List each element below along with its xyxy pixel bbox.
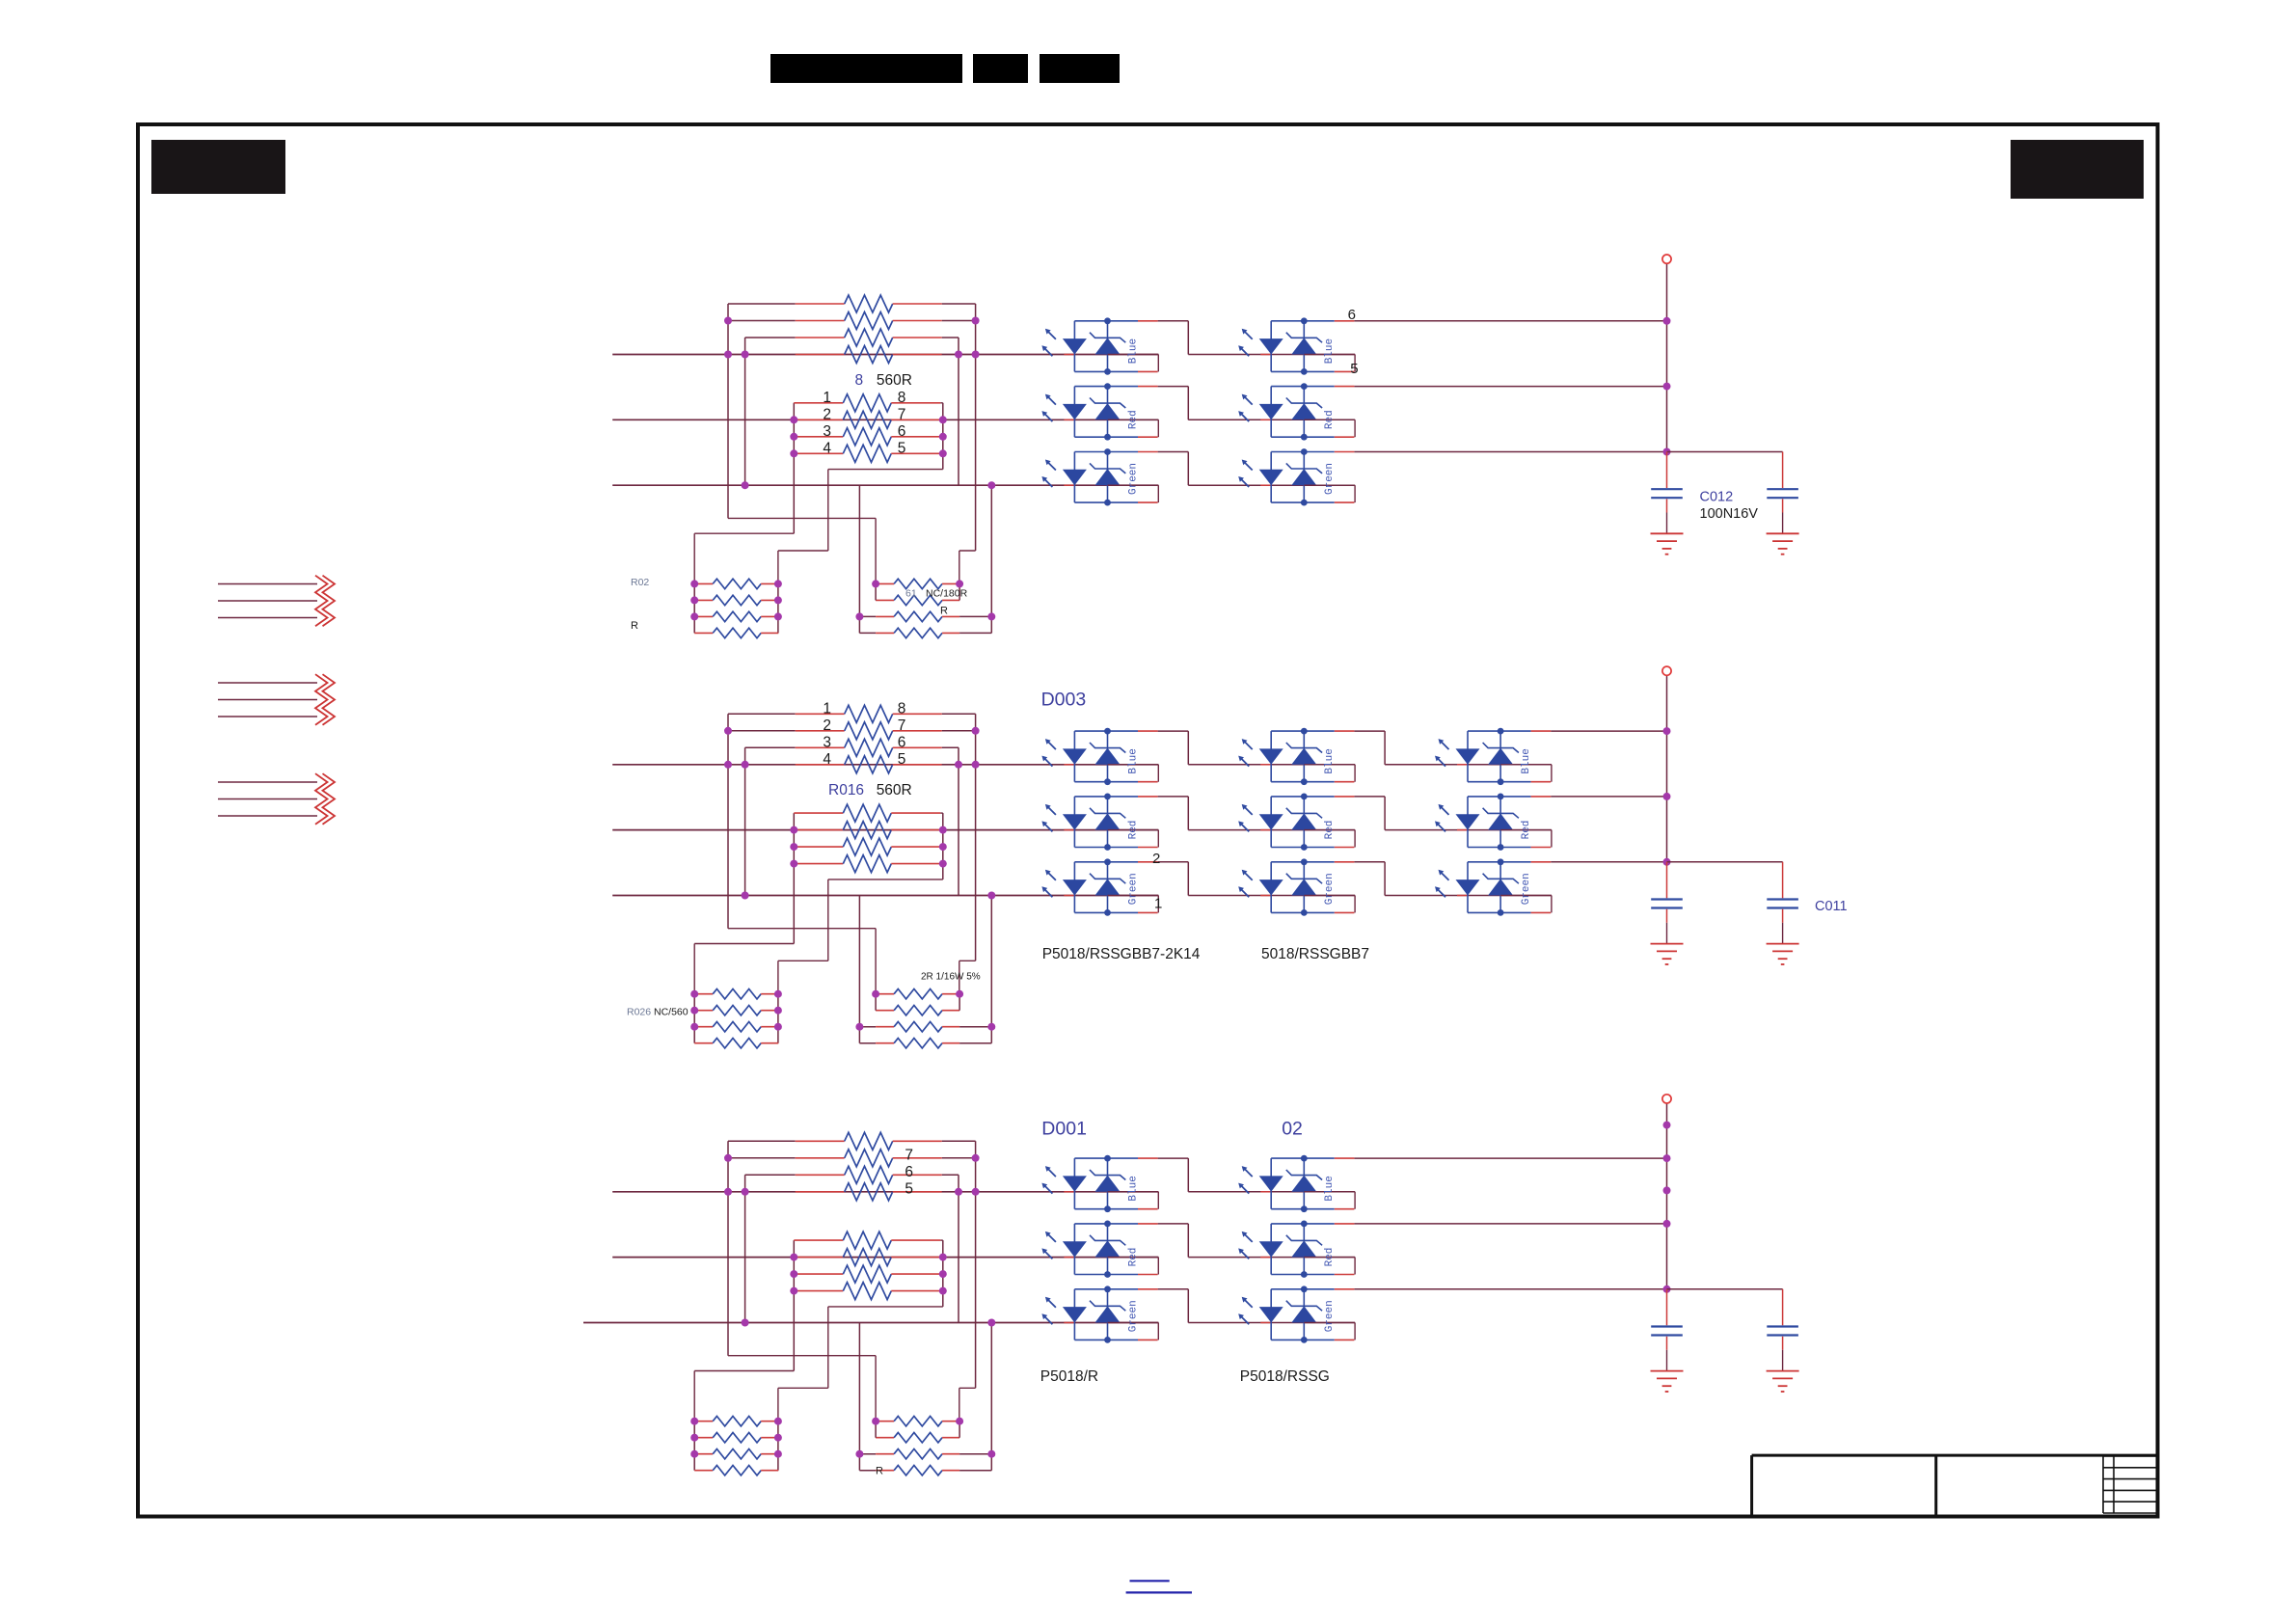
- LED+zener cell C Green #1: [1041, 1286, 1158, 1342]
- junction B v3-bluerow: [955, 761, 962, 769]
- wire A Blue row link to cell2: [1188, 354, 1355, 356]
- junction C bl-right: [774, 1450, 782, 1458]
- wire B Blue row link to cell2: [1188, 764, 1355, 766]
- wire C upper-array right rail v3: [958, 1175, 959, 1322]
- wire A br rows34 right link: [990, 616, 992, 633]
- resistor A bottom-left r4: [694, 628, 778, 637]
- wire B br r3 left ext: [859, 1026, 876, 1028]
- wire A bottom-left rail L: [693, 583, 695, 633]
- wire B left drop to R row: [858, 896, 860, 1027]
- wire C br rows12 right link: [959, 1421, 960, 1438]
- junction C v5-greenrow: [987, 1319, 995, 1327]
- junction C rail extra: [1663, 1122, 1671, 1129]
- resistor B bottom-right r1: [876, 989, 959, 999]
- svg-text:D001: D001: [1041, 1118, 1087, 1139]
- junction C v3-bluerow: [955, 1188, 962, 1196]
- power node B (open circle): [1662, 666, 1671, 675]
- wire B Blue row link to cell3: [1385, 764, 1552, 766]
- LED+zener cell C Red #1: [1041, 1221, 1158, 1278]
- svg-text:8: 8: [855, 372, 864, 389]
- resistor B bottom-left r4: [694, 1039, 778, 1048]
- wire B Red cell1 top-rail link: [1158, 796, 1189, 798]
- junction A bl-right: [774, 596, 782, 604]
- svg-text:C012: C012: [1700, 490, 1734, 505]
- wire C Blue step-down: [1187, 1158, 1189, 1192]
- svg-text:2: 2: [823, 717, 831, 734]
- resistor C bottom-left r2: [694, 1433, 778, 1443]
- wire B Blue cell1 top-rail link: [1158, 730, 1189, 732]
- wire A upper-array right rail v4: [975, 304, 977, 551]
- wire A br rows34 left link: [858, 616, 860, 633]
- svg-text:R: R: [940, 606, 948, 617]
- resistor C bottom-right r2: [876, 1433, 959, 1443]
- junction B bl-right: [774, 1007, 782, 1015]
- wire C bottom-left rail R: [777, 1421, 779, 1471]
- svg-text:6: 6: [1348, 307, 1356, 323]
- power rail C: [1666, 1103, 1668, 1289]
- svg-text:8: 8: [898, 701, 906, 717]
- wire B upper-array right rail v3: [958, 747, 959, 895]
- resistor A bottom-left r3: [694, 611, 778, 621]
- junction C mid-right: [939, 1270, 947, 1278]
- resistor B upper array r3: [796, 739, 942, 756]
- wire B Green top rail to power rail: [1551, 861, 1666, 863]
- wire A upper-array left rail v2: [744, 338, 746, 485]
- junction B br r1 right: [956, 990, 963, 998]
- resistor B upper array r4: [796, 756, 942, 773]
- LED+zener cell C Green #2: [1238, 1286, 1355, 1342]
- LED+zener cell B Red #3: [1435, 794, 1552, 851]
- resistor C upper array r2: [796, 1150, 942, 1167]
- wire A upper-array right rail v3: [958, 338, 959, 485]
- junction C mid-right: [939, 1254, 947, 1261]
- wire B Green cell2 top-rail link: [1354, 861, 1385, 863]
- junction A v2-greenrow: [742, 481, 749, 489]
- wire B upper-array left rail v1: [727, 714, 729, 928]
- junction A rail: [1663, 448, 1671, 456]
- svg-text:R016: R016: [828, 782, 864, 798]
- wire B br rows34 right link: [990, 1027, 992, 1043]
- junction B rail: [1663, 858, 1671, 866]
- resistor B bottom-left r2: [694, 1006, 778, 1015]
- wire C Red cell1 top-rail link: [1158, 1223, 1189, 1225]
- junction B mid-right: [939, 860, 947, 868]
- junction C br r3 left: [855, 1450, 863, 1458]
- resistor C bottom-left r3: [694, 1449, 778, 1459]
- junction A v1-bluerow: [724, 351, 732, 359]
- wire B Green row net: [612, 895, 1158, 897]
- resistor A middle array r2: [794, 411, 940, 428]
- wire C green rail branch: [1667, 1288, 1783, 1290]
- resistor C middle array r1: [794, 1232, 940, 1249]
- svg-text:7: 7: [898, 717, 906, 734]
- title block left edge: [1750, 1455, 1753, 1515]
- wire B upper-array left rail v2: [744, 747, 746, 895]
- wire B bottom-left rail R: [777, 994, 779, 1043]
- capacitor B #1 with ground: [1651, 862, 1684, 964]
- wire A br r4 right ext: [959, 632, 991, 634]
- svg-text:560R: 560R: [877, 782, 912, 798]
- wire B Blue cell2 top-rail link: [1354, 730, 1385, 732]
- junction A v3-bluerow: [955, 351, 962, 359]
- junction A bl-right: [774, 580, 782, 587]
- svg-text:R: R: [876, 1466, 883, 1477]
- wire B br rows12 left link: [875, 994, 877, 1011]
- LED+zener cell B Green #2: [1238, 858, 1355, 915]
- resistor A bottom-right r1: [876, 579, 959, 588]
- resistor B upper array r1: [796, 705, 942, 722]
- wire B Red step-down: [1384, 797, 1386, 830]
- title block top line: [1752, 1454, 2157, 1457]
- wire C br rows12 left link: [875, 1421, 877, 1438]
- capacitor C #1 with ground: [1651, 1289, 1684, 1392]
- resistor C bottom-right r3: [876, 1449, 959, 1459]
- junction B v4-r2: [972, 727, 980, 735]
- svg-text:100N16V: 100N16V: [1700, 506, 1759, 522]
- wire A Blue cell1 top-rail link: [1158, 320, 1189, 322]
- wire B right drop v5: [990, 896, 992, 1027]
- junction C bl-left: [690, 1434, 698, 1442]
- wire B Blue step-down: [1384, 731, 1386, 765]
- resistor A upper array r2: [796, 312, 942, 330]
- wire A bottom-left rail R: [777, 583, 779, 633]
- junction C v4-r2: [972, 1154, 980, 1162]
- resistor B upper array r2: [796, 722, 942, 740]
- wire B Green row link to cell2: [1188, 895, 1355, 897]
- svg-text:6: 6: [905, 1164, 913, 1180]
- svg-text:1: 1: [823, 390, 831, 406]
- wire A Red step-down: [1187, 387, 1189, 420]
- svg-text:5: 5: [898, 751, 906, 768]
- resistor C middle array r4: [794, 1283, 940, 1300]
- resistor B middle array r4: [794, 855, 940, 873]
- junction B bl-left: [690, 1023, 698, 1031]
- wire B green rail branch: [1667, 861, 1783, 863]
- title block divider: [1934, 1455, 1937, 1515]
- wire C upper r2 right: [942, 1157, 976, 1159]
- wire C Red step-down: [1187, 1224, 1189, 1258]
- resistor C bottom-right r1: [876, 1417, 959, 1426]
- resistor C middle array r3: [794, 1265, 940, 1283]
- resistor A bottom-right r3: [876, 611, 959, 621]
- resistor C upper array r3: [796, 1166, 942, 1183]
- resistor C bottom-right r4: [876, 1466, 959, 1475]
- junction A bl-left: [690, 612, 698, 620]
- wire C br r3 left ext: [859, 1453, 876, 1455]
- junction A bl-left: [690, 580, 698, 587]
- svg-text:7: 7: [898, 407, 906, 423]
- svg-text:3: 3: [823, 735, 831, 751]
- junction A v4-r2: [972, 317, 980, 325]
- LED+zener cell A Blue #2: [1238, 317, 1355, 374]
- resistor B middle array r3: [794, 838, 940, 855]
- junction A v1-r2: [724, 317, 732, 325]
- junction C v1-r2: [724, 1154, 732, 1162]
- wire C upper-array left rail v1: [727, 1141, 729, 1355]
- junction B v1-bluerow: [724, 761, 732, 769]
- wire A br rows12 left link: [875, 583, 877, 600]
- resistor B bottom-right r2: [876, 1006, 959, 1015]
- wire A mid-array right rail: [942, 403, 944, 470]
- svg-text:1: 1: [823, 701, 831, 717]
- junction C rail extra: [1663, 1186, 1671, 1194]
- junction B rail: [1663, 793, 1671, 800]
- wire A Red row net: [612, 419, 1158, 420]
- wire C upper-array left rail v2: [744, 1175, 746, 1322]
- wire B br r3 right ext: [959, 1026, 991, 1028]
- resistor A middle array r4: [794, 445, 940, 462]
- junction B mid-left: [790, 860, 797, 868]
- resistor C bottom-left r4: [694, 1466, 778, 1475]
- wire B upper r3 right: [942, 746, 959, 748]
- wire C Green cell1 top-rail link: [1158, 1288, 1189, 1290]
- wire A left drop to R row: [858, 485, 860, 616]
- redaction bar top 3: [1040, 54, 1120, 83]
- wire A upper r2 left: [728, 320, 796, 322]
- svg-text:2R 1/16W 5%: 2R 1/16W 5%: [921, 972, 981, 983]
- junction A rail: [1663, 317, 1671, 325]
- wire C Red row net: [612, 1257, 1158, 1259]
- redaction bar top 2: [973, 54, 1028, 83]
- junction C mid-left: [790, 1270, 797, 1278]
- junction A mid-left: [790, 416, 797, 423]
- LED+zener cell A Red #1: [1041, 383, 1158, 440]
- wire C br rows34 right link: [990, 1454, 992, 1471]
- junction C v1-bluerow: [724, 1188, 732, 1196]
- wire C Green top rail to power rail: [1354, 1288, 1666, 1290]
- resistor A upper array r1: [796, 295, 942, 312]
- connector bundle 3 (3 wires + chevrons): [218, 773, 335, 825]
- resistor B middle array r2: [794, 822, 940, 839]
- wire B Blue step-down: [1187, 731, 1189, 765]
- junction C br r3 right: [987, 1450, 995, 1458]
- power node C (open circle): [1662, 1095, 1671, 1103]
- LED+zener cell B Blue #1: [1041, 728, 1158, 785]
- wire C bottom-left rail L: [693, 1421, 695, 1471]
- wire A Green top rail to power rail: [1354, 451, 1666, 453]
- svg-text:8: 8: [898, 390, 906, 406]
- junction B rail: [1663, 727, 1671, 735]
- wire B br rows12 right link: [959, 994, 960, 1011]
- wire A Blue top rail to power rail: [1354, 320, 1666, 322]
- wire C Green row net: [583, 1322, 1158, 1324]
- junction C mid-left: [790, 1287, 797, 1295]
- resistor A middle array r1: [794, 394, 940, 412]
- junction B br r3 right: [987, 1023, 995, 1031]
- wire A br r4 left ext: [859, 632, 876, 634]
- svg-text:5: 5: [1350, 361, 1358, 377]
- wire C Green row link to cell2: [1188, 1322, 1355, 1324]
- wire C mid-array left rail: [793, 1240, 795, 1370]
- junction B br r1 left: [872, 990, 879, 998]
- LED+zener cell A Green #1: [1041, 448, 1158, 505]
- wire B Green row link to cell3: [1385, 895, 1552, 897]
- junction C bl-left: [690, 1450, 698, 1458]
- LED+zener cell A Blue #1: [1041, 317, 1158, 374]
- svg-text:R02: R02: [631, 577, 649, 588]
- junction C br r1 left: [872, 1418, 879, 1425]
- junction B br r3 left: [855, 1023, 863, 1031]
- wire B br r4 left ext: [859, 1042, 876, 1044]
- junction C rail: [1663, 1154, 1671, 1162]
- junction C rail: [1663, 1286, 1671, 1293]
- wire B Red top rail to power rail: [1551, 796, 1666, 798]
- resistor B bottom-right r4: [876, 1039, 959, 1048]
- wire A Red cell1 top-rail link: [1158, 386, 1189, 388]
- wire A Blue row net: [612, 354, 1158, 356]
- resistor A upper array r4: [796, 346, 942, 364]
- resistor B bottom-right r3: [876, 1022, 959, 1032]
- junction C rail: [1663, 1220, 1671, 1228]
- wire B Blue top rail to power rail: [1551, 730, 1666, 732]
- junction C bl-right: [774, 1434, 782, 1442]
- svg-text:2: 2: [823, 407, 831, 423]
- wire B mid-array right rail: [942, 813, 944, 880]
- svg-text:R026: R026: [627, 1007, 651, 1018]
- junction B mid-left: [790, 843, 797, 851]
- junction B v5-greenrow: [987, 892, 995, 900]
- svg-text:560R: 560R: [877, 372, 912, 389]
- junction A br r1 left: [872, 580, 879, 587]
- junction A mid-left: [790, 449, 797, 457]
- junction C bl-right: [774, 1418, 782, 1425]
- wire B bottom-left rail L: [693, 994, 695, 1043]
- wire A Red top rail to power rail: [1354, 386, 1666, 388]
- svg-text:NC/560: NC/560: [654, 1007, 689, 1018]
- wire A Green row net: [612, 484, 1158, 486]
- junction C mid-right: [939, 1287, 947, 1295]
- junction B v4-bluerow: [972, 761, 980, 769]
- junction C v4-bluerow: [972, 1188, 980, 1196]
- LED+zener cell B Blue #3: [1435, 728, 1552, 785]
- wire A upper r2 right: [942, 320, 976, 322]
- capacitor C #2 with ground: [1767, 1289, 1799, 1392]
- svg-text:2: 2: [1152, 851, 1160, 867]
- wire C upper r3 right: [942, 1174, 959, 1176]
- wire A upper r3 right: [942, 337, 959, 338]
- wire C Blue row net: [612, 1191, 1158, 1193]
- LED+zener cell C Blue #1: [1041, 1155, 1158, 1212]
- resistor B bottom-left r1: [694, 989, 778, 999]
- resistor A bottom-right r4: [876, 628, 959, 637]
- svg-text:1: 1: [1154, 896, 1162, 912]
- svg-text:4: 4: [823, 441, 831, 457]
- junction A v4-bluerow: [972, 351, 980, 359]
- wire C Blue cell1 top-rail link: [1158, 1157, 1189, 1159]
- wire A Blue step-down: [1187, 321, 1189, 355]
- wire C upper r2 left: [728, 1157, 796, 1159]
- junction A rail: [1663, 383, 1671, 391]
- wire A br rows12 right link: [959, 583, 960, 600]
- LED+zener cell A Red #2: [1238, 383, 1355, 440]
- svg-text:02: 02: [1282, 1118, 1303, 1139]
- junction A br r3 left: [855, 612, 863, 620]
- svg-text:61: 61: [905, 588, 917, 600]
- svg-text:3: 3: [823, 423, 831, 440]
- wire A Green cell1 top-rail link: [1158, 451, 1189, 453]
- svg-text:P5018/R: P5018/R: [1040, 1368, 1098, 1385]
- wire B Red cell2 top-rail link: [1354, 796, 1385, 798]
- wire C Blue row link to cell2: [1188, 1191, 1355, 1193]
- wire A green rail branch: [1667, 451, 1783, 453]
- wire B upper-array right rail v4: [975, 714, 977, 961]
- capacitor B #2 with ground: [1767, 862, 1799, 964]
- connector bundle 1 (3 wires + chevrons): [218, 576, 335, 627]
- junction A v5-greenrow: [987, 481, 995, 489]
- junction A mid-right: [939, 449, 947, 457]
- wire A upper r1 right: [942, 303, 976, 305]
- junction C bl-left: [690, 1418, 698, 1425]
- wire C br r3 right ext: [959, 1453, 991, 1455]
- wire B upper r2 right: [942, 730, 976, 732]
- junction B v2-greenrow: [742, 892, 749, 900]
- sheet border frame: [138, 124, 2158, 1517]
- junction C v2-bluerow: [742, 1188, 749, 1196]
- LED+zener cell B Red #1: [1041, 794, 1158, 851]
- wire C left drop to R row: [858, 1323, 860, 1454]
- wire B Red step-down: [1187, 797, 1189, 830]
- junction B bl-right: [774, 990, 782, 998]
- svg-text:D003: D003: [1041, 689, 1087, 710]
- resistor C middle array r2: [794, 1249, 940, 1266]
- wire A br r3 right ext: [959, 615, 991, 617]
- svg-text:R: R: [631, 620, 638, 632]
- wire A upper-array left rail v1: [727, 304, 729, 518]
- wire C Red top rail to power rail: [1354, 1223, 1666, 1225]
- capacitor A #2 with ground: [1767, 452, 1799, 555]
- wire A upper r1 left: [728, 303, 796, 305]
- resistor B middle array r1: [794, 804, 940, 822]
- LED+zener cell B Green #1: [1041, 858, 1158, 915]
- capacitor A #1 with ground: [1651, 452, 1684, 555]
- wire B br rows34 left link: [858, 1027, 860, 1043]
- resistor A upper array r3: [796, 329, 942, 346]
- junction A v2-bluerow: [742, 351, 749, 359]
- resistor A bottom-left r2: [694, 595, 778, 605]
- resistor A bottom-right r2: [876, 595, 959, 605]
- wire B Blue row net: [612, 764, 1158, 766]
- wire A right drop v5: [990, 485, 992, 616]
- LED+zener cell B Green #3: [1435, 858, 1552, 915]
- junction A bl-right: [774, 612, 782, 620]
- footer mark line 2: [1126, 1591, 1192, 1593]
- redaction box top-right: [2011, 140, 2144, 199]
- LED+zener cell B Blue #2: [1238, 728, 1355, 785]
- wire A br r3 left ext: [859, 615, 876, 617]
- wire C upper r1 left: [728, 1140, 796, 1142]
- wire C Green step-down: [1187, 1289, 1189, 1323]
- redaction box top-left: [151, 140, 285, 194]
- redaction bar top 1: [770, 54, 962, 83]
- wire B mid-array left rail: [793, 813, 795, 943]
- junction A mid-right: [939, 416, 947, 423]
- junction C br r1 right: [956, 1418, 963, 1425]
- junction A bl-left: [690, 596, 698, 604]
- svg-text:5: 5: [898, 441, 906, 457]
- footer mark line 1: [1130, 1580, 1170, 1582]
- wire C br r4 right ext: [959, 1470, 991, 1472]
- wire C upper-array right rail v4: [975, 1141, 977, 1388]
- svg-text:NC/180R: NC/180R: [926, 588, 968, 600]
- wire B Red row net: [612, 829, 1158, 831]
- junction A br r1 right: [956, 580, 963, 587]
- junction A br r3 right: [987, 612, 995, 620]
- svg-text:6: 6: [898, 735, 906, 751]
- wire B upper r1 right: [942, 713, 976, 715]
- junction A mid-left: [790, 433, 797, 441]
- svg-text:5: 5: [905, 1180, 913, 1197]
- junction B mid-right: [939, 843, 947, 851]
